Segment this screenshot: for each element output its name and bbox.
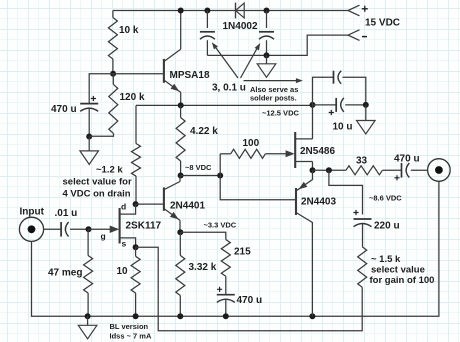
wire base node to 470u cap [89, 74, 113, 104]
node collector/top-rail [178, 8, 184, 14]
svg-text:33: 33 [356, 156, 368, 167]
svg-text:215: 215 [234, 247, 251, 258]
svg-text:~8.6 VDC: ~8.6 VDC [369, 194, 402, 203]
label ~8 VDC [185, 163, 212, 172]
wire MPSA18 base [113, 73, 164, 75]
wire 10u left [313, 104, 337, 106]
node bus 3.32k [177, 313, 183, 319]
svg-text:10: 10 [117, 266, 129, 277]
label 33 [356, 156, 368, 167]
resistor ~1.5k [358, 247, 367, 288]
wire gate [89, 228, 111, 230]
wire -15V return rail [207, 35, 348, 55]
wire 470u to 120k bottom [88, 109, 90, 137]
transistor Q1 MPSA18 [164, 49, 181, 92]
capacitor 220u [353, 210, 371, 227]
label Input [20, 207, 45, 218]
svg-text:~1.2 k: ~1.2 k [96, 165, 123, 176]
label 470 u out [394, 154, 420, 165]
svg-text:10 k: 10 k [119, 25, 139, 36]
svg-text:1N4002: 1N4002 [223, 21, 258, 32]
wire cap A stem [206, 11, 208, 29]
ground under 470u [80, 137, 99, 165]
svg-text:120 k: 120 k [120, 92, 145, 103]
label 4.22 k [190, 126, 218, 137]
label d [121, 202, 126, 212]
capacitor .01u input [61, 222, 69, 237]
resistor 3.32k [176, 232, 185, 316]
wire emitter to 215 [180, 232, 226, 239]
resistor 10k [108, 11, 117, 74]
svg-text:select value: select value [371, 265, 425, 276]
svg-text:solder posts.: solder posts. [250, 94, 297, 103]
wire 215 to cap [225, 276, 227, 294]
capacitor 470u mid [217, 287, 235, 303]
svg-text:for gain of 100: for gain of 100 [370, 275, 435, 286]
annotation arrow to cap B [241, 43, 261, 78]
node 2SK117 drain [133, 201, 139, 207]
wire cap A bottom [206, 40, 208, 55]
label ~12.5 VDC [262, 109, 299, 118]
transistor Q5 2N4403 [296, 170, 313, 316]
capacitor 0.1u B [259, 32, 274, 39]
svg-text:~3.3 VDC: ~3.3 VDC [204, 221, 237, 230]
svg-text:s: s [122, 239, 127, 249]
node bus 10 [133, 313, 139, 319]
node bus 47meg [85, 313, 91, 319]
wire drain to 2N4401 base [136, 203, 164, 205]
svg-text:Idss ~ 7 mA: Idss ~ 7 mA [110, 332, 152, 341]
label select value [371, 265, 425, 276]
label s [122, 239, 127, 249]
node 470u/120k junction [86, 134, 92, 140]
wire cap to bus [225, 300, 227, 317]
svg-text:~8 VDC: ~8 VDC [185, 163, 212, 172]
capacitor 470u bypass [80, 96, 98, 111]
ground minus rail [257, 55, 276, 77]
label BL version [110, 322, 149, 331]
wire cap B bottom [266, 40, 268, 55]
label 47 meg [48, 268, 82, 279]
label 3.32 k [189, 262, 217, 273]
wire node up to 100 [219, 154, 221, 176]
resistor 47meg [84, 229, 93, 316]
capacitor 10u [329, 98, 344, 115]
wire MPSA18 emitter riser [180, 92, 182, 105]
wire jack to cap [44, 228, 62, 230]
connector +15 VDC terminal [348, 5, 368, 16]
annotation arrow to cap A [212, 42, 238, 78]
wire tap to 220u [329, 170, 363, 214]
label Idss [110, 332, 152, 341]
node bus 470u [223, 313, 229, 319]
wire cap C left riser [313, 77, 334, 105]
wire junction to 120k [89, 133, 113, 136]
wire -8VDC node [181, 175, 221, 177]
wire emitter bus -12.5VDC [136, 104, 313, 106]
wire top +15V rail [113, 10, 348, 12]
svg-text:220 u: 220 u [374, 221, 400, 232]
wire 220u to 1.5k [362, 224, 364, 247]
node 10u ground [363, 102, 369, 108]
ground under 10u [357, 105, 376, 134]
connector -15 VDC terminal [348, 30, 367, 41]
transistor Q4 2N5486 JFET [295, 132, 312, 168]
label for gain of 100 [370, 275, 435, 286]
node drain riser junction [310, 102, 316, 108]
svg-text:d: d [121, 202, 126, 212]
svg-text:3.32 k: 3.32 k [189, 262, 217, 273]
wire cap to output jack [411, 169, 428, 171]
wire cap C right [343, 77, 366, 105]
svg-text:select value for: select value for [63, 177, 132, 188]
wire node to 2N4403 base [220, 176, 296, 200]
svg-text:~ 1.5 k: ~ 1.5 k [371, 254, 401, 265]
capacitor 0.1u A [200, 32, 215, 39]
wire ground bus [32, 181, 439, 316]
output jack J2 [428, 159, 451, 182]
wire source feedback [136, 247, 363, 331]
label 15 VDC [365, 18, 400, 29]
svg-text:2SK117: 2SK117 [126, 221, 162, 232]
label 120 k [120, 92, 145, 103]
label 1N4002 [223, 21, 258, 32]
wire source node [313, 169, 346, 171]
node 2N4401 emitter [177, 229, 183, 235]
transistor Q3 2N4401 [164, 182, 180, 221]
input jack J1 [19, 217, 43, 241]
label ~1.2 k [96, 165, 123, 176]
label Also serve as [250, 85, 298, 94]
resistor 4.22k [176, 105, 185, 175]
wire 2N5486 source riser [312, 162, 314, 171]
node bus 2N4403 collector [309, 313, 315, 319]
svg-text:g: g [101, 231, 106, 241]
node source/emitter [310, 167, 316, 173]
resistor ~1.2k [132, 144, 141, 205]
wire cap to gate node [70, 228, 89, 230]
label solder posts. [250, 94, 297, 103]
label ~ 1.5 k [371, 254, 401, 265]
resistor 100 [220, 149, 265, 158]
wire cap B stem [266, 11, 268, 29]
label 2N4401 [170, 201, 205, 212]
label 470 u mid [237, 295, 263, 306]
label 220 u [374, 221, 400, 232]
node -8VDC right [217, 173, 223, 179]
label 10 u [333, 122, 353, 133]
svg-text:470 u: 470 u [237, 295, 263, 306]
label 3, 0.1 u [212, 83, 246, 94]
node source/220u tap [326, 167, 332, 173]
label 2SK117 [126, 221, 162, 232]
svg-text:47 meg: 47 meg [48, 268, 82, 279]
wire 2N4401 collector riser [179, 176, 181, 182]
label 4 VDC on drain [63, 189, 131, 200]
label 470 u [51, 104, 77, 115]
label 100 [243, 138, 260, 149]
wire MPSA18 collector riser [180, 11, 182, 50]
svg-text:Input: Input [20, 207, 45, 218]
resistor 215 [221, 240, 230, 277]
resistor 33 [346, 166, 402, 175]
wire emitter bus to 1.2k [135, 105, 137, 143]
capacitor 470u out [394, 163, 409, 180]
node 2SK117 source [133, 244, 139, 250]
svg-text:3, 0.1 u: 3, 0.1 u [212, 83, 246, 94]
label 10 k [119, 25, 139, 36]
svg-text:15 VDC: 15 VDC [365, 18, 400, 29]
svg-text:2N4403: 2N4403 [301, 197, 336, 208]
svg-text:BL version: BL version [110, 322, 149, 331]
label 215 [234, 247, 251, 258]
wire 10u right [345, 104, 366, 106]
label .01 u [55, 208, 78, 219]
node cap B top [264, 8, 270, 14]
svg-text:.01 u: .01 u [55, 208, 78, 219]
label g [101, 231, 106, 241]
label 2N4403 [301, 197, 336, 208]
annotation arrow to cap C [244, 78, 303, 83]
svg-text:2N4401: 2N4401 [170, 201, 205, 212]
node cap A top [204, 8, 210, 14]
node -8VDC left [178, 173, 184, 179]
label ~3.3 VDC [204, 221, 237, 230]
wire 2N4401 emitter riser [179, 220, 181, 232]
capacitor 0.1u C [334, 71, 342, 84]
diode D1 1N4002 [236, 3, 245, 19]
resistor 120k [109, 74, 118, 134]
node base MPSA18 junction [110, 71, 116, 77]
node minus-rail ground [264, 52, 270, 58]
svg-text:470 u: 470 u [394, 154, 420, 165]
svg-text:~12.5 VDC: ~12.5 VDC [262, 109, 299, 118]
svg-text:10 u: 10 u [333, 122, 353, 133]
svg-text:2N5486: 2N5486 [300, 146, 335, 157]
transistor Q2 2SK117 JFET [110, 204, 136, 247]
node gate/47meg [86, 226, 92, 232]
label select value for [63, 177, 132, 188]
label MPSA18 [170, 70, 210, 81]
node emitter/4.22k [178, 102, 184, 108]
label 2N5486 [300, 146, 335, 157]
resistor 10 [131, 247, 140, 316]
svg-text:4.22 k: 4.22 k [190, 126, 218, 137]
label 10 [117, 266, 129, 277]
svg-text:100: 100 [243, 138, 260, 149]
ground main bus [78, 316, 97, 339]
svg-text:MPSA18: MPSA18 [170, 70, 210, 81]
label ~8.6 VDC [369, 194, 402, 203]
svg-text:4 VDC on drain: 4 VDC on drain [63, 189, 131, 200]
svg-text:470 u: 470 u [51, 104, 77, 115]
wire 2N5486 drain riser [312, 105, 314, 139]
wire 100 to gate with arrow [265, 150, 294, 157]
